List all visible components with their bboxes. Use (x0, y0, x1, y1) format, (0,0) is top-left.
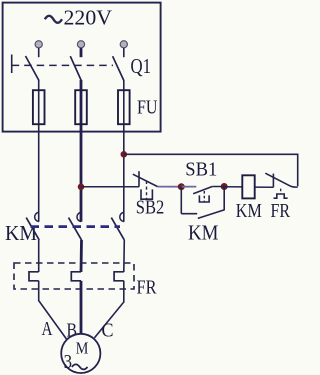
wire phase3 vertical (123, 80, 125, 222)
node SB1 right (221, 183, 228, 190)
svg-text:3: 3 (64, 351, 72, 373)
terminal L2 (77, 41, 84, 48)
supply box (3, 3, 161, 132)
wire node to coil (224, 186, 242, 188)
heater FR2 (71, 272, 81, 281)
wire to motor B (thick) (80, 281, 83, 334)
wire phase1 vertical (38, 80, 40, 222)
coil KM (242, 175, 254, 198)
wire L3 stub (123, 48, 125, 57)
fuse FU1 (33, 90, 45, 124)
svg-text:KM: KM (5, 221, 37, 245)
fuse FU3 (118, 90, 130, 124)
terminal L3 (120, 41, 127, 48)
wire control top rail (124, 154, 298, 186)
svg-text:220V: 220V (64, 6, 113, 30)
terminal L1 (35, 41, 42, 48)
node L2/control junction (78, 184, 85, 191)
wire control main to SB2 (81, 186, 139, 188)
motor M (61, 334, 100, 373)
thermal FR box (dashed) (14, 263, 134, 289)
node L3/control junction (121, 151, 128, 158)
svg-text:SB2: SB2 (136, 196, 165, 218)
wire coil to FR (255, 186, 274, 188)
svg-text:KM: KM (188, 221, 219, 245)
svg-text:FR: FR (271, 200, 291, 222)
wire to motor A (39, 281, 67, 340)
heater FR3 (114, 272, 124, 281)
pushbutton SB1 (NO start) (181, 187, 224, 203)
wire phase1 lower (38, 240, 40, 272)
svg-text:A: A (42, 318, 53, 340)
heater FR1 (29, 272, 39, 281)
svg-text:KM: KM (236, 200, 262, 222)
wire phase2 lower (thick) (80, 240, 83, 272)
wire to motor C (94, 281, 123, 338)
node SB1 left (178, 183, 185, 190)
fuse FU2 (75, 90, 87, 124)
wire SB2 to node (158, 186, 182, 188)
svg-text:FU: FU (137, 98, 158, 119)
contact KM aux (parallel) (181, 187, 224, 219)
wire phase2 vertical (thick) (80, 80, 83, 222)
pushbutton SB2 (NC stop) (133, 171, 158, 199)
KM linkage (dashed) (31, 225, 121, 228)
svg-text:Q1: Q1 (131, 54, 152, 78)
svg-text:M: M (76, 338, 89, 357)
contact KM2 (69, 212, 82, 240)
label ~220V (45, 6, 113, 30)
wire L2 stub (80, 48, 83, 57)
contact FR (NC thermal) (265, 173, 297, 198)
svg-text:SB1: SB1 (185, 158, 217, 180)
contact KM1 (26, 212, 39, 240)
svg-text:C: C (102, 320, 114, 342)
contact KM3 (111, 212, 124, 240)
wire L1 stub (38, 48, 40, 57)
switch Q1 (12, 55, 124, 81)
svg-text:FR: FR (137, 277, 158, 299)
wire phase3 lower (123, 240, 126, 272)
